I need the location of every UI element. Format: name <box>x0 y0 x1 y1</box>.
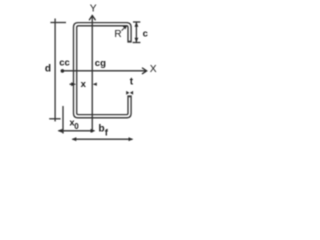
x-bar dimension right-pointing arrow <box>70 83 73 85</box>
svg-text:x: x <box>81 79 87 90</box>
x0 extension line <box>62 106 64 134</box>
shear center dot <box>61 69 65 73</box>
svg-text:d: d <box>45 64 51 75</box>
X axis arrowhead <box>142 68 146 74</box>
d top tick <box>50 22 66 24</box>
d dimension line <box>54 19 56 122</box>
svg-text:R: R <box>114 29 121 40</box>
svg-text:0: 0 <box>74 122 79 131</box>
x0 dimension line <box>59 130 95 132</box>
d bottom tick <box>49 118 60 120</box>
svg-text:X: X <box>150 64 157 75</box>
x-bar dimension left-pointing arrow <box>94 83 96 85</box>
c dimension line <box>135 22 137 43</box>
bf dimension line <box>73 138 133 140</box>
x0 right arrowhead <box>91 129 96 133</box>
X axis line <box>62 70 146 72</box>
svg-text:cc: cc <box>59 58 70 69</box>
Y axis line <box>91 15 93 132</box>
svg-text:Y: Y <box>90 4 97 15</box>
top lip end cap <box>128 41 132 43</box>
bf right arrowhead <box>129 137 134 141</box>
svg-text:cg: cg <box>95 58 106 69</box>
c bottom tick <box>133 42 141 44</box>
R leader arrow <box>122 28 124 30</box>
bottom lip end cap <box>128 96 132 98</box>
svg-text:c: c <box>143 28 148 39</box>
Y axis arrowhead <box>89 16 95 20</box>
svg-text:b: b <box>99 123 105 134</box>
c down arrowhead <box>135 38 139 43</box>
bf left arrowhead <box>72 137 77 141</box>
c up arrowhead <box>135 22 139 27</box>
t thickness arrows <box>126 91 129 95</box>
channel section outline (C with lips) <box>74 23 132 118</box>
x0 left arrowhead <box>58 129 63 133</box>
c top tick <box>133 21 140 23</box>
